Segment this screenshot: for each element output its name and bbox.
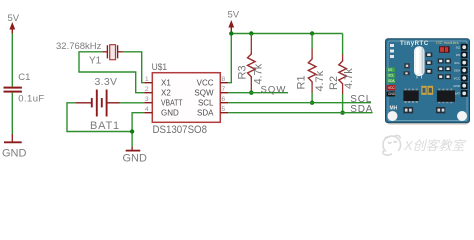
TinyRTC module photo <box>386 39 470 125</box>
PCB board <box>386 39 470 123</box>
svg-text:2: 2 <box>145 86 149 93</box>
left white dots <box>390 44 394 58</box>
crystal cylinder photo <box>414 46 425 78</box>
wire SQW net <box>228 92 288 94</box>
watermark logo <box>383 135 401 155</box>
wire crystal right to X1 pin1 <box>123 52 144 83</box>
PCB shadow <box>388 120 468 125</box>
svg-text:Y1: Y1 <box>89 56 102 67</box>
svg-text:GND: GND <box>161 108 179 117</box>
wire 5V rail top <box>231 33 342 35</box>
wire rail to VCC pin8 <box>228 34 231 83</box>
svg-text:VCC: VCC <box>454 76 461 80</box>
svg-text:0.1uF: 0.1uF <box>18 94 44 105</box>
wire SDA net <box>228 112 372 114</box>
svg-text:GND: GND <box>2 148 27 160</box>
pin 7 SQW <box>220 86 228 93</box>
wire battery right to VBATT pin3 <box>120 102 145 104</box>
wire 5V to C1 <box>11 34 13 87</box>
resistor R3 <box>248 34 256 93</box>
svg-text:32.768kHz: 32.768kHz <box>56 41 102 52</box>
ground symbol right <box>126 147 141 151</box>
battery BAT1 <box>75 90 120 117</box>
pin names left column <box>161 78 183 117</box>
IC2 SOIC <box>437 89 455 104</box>
svg-text:I2C modules: I2C modules <box>436 40 458 45</box>
svg-text:5V: 5V <box>8 13 20 24</box>
svg-text:4: 4 <box>145 106 149 113</box>
svg-text:SQW: SQW <box>261 84 287 95</box>
capacitor C1 <box>4 87 22 93</box>
svg-text:GND: GND <box>123 153 148 165</box>
svg-text:4.7k: 4.7k <box>343 68 355 89</box>
yellow caps <box>421 86 433 95</box>
svg-text:SCL: SCL <box>454 61 460 65</box>
svg-text:3: 3 <box>145 96 149 103</box>
junction R1 SCL <box>310 101 314 105</box>
wire battery left to bottom rail <box>67 103 132 132</box>
mounting hole left <box>388 111 398 121</box>
pin 4 GND <box>144 106 152 113</box>
pin 8 VCC <box>220 76 228 83</box>
svg-text:VCC: VCC <box>197 78 214 87</box>
svg-text:BAT1: BAT1 <box>90 120 120 132</box>
svg-text:SDA: SDA <box>454 69 460 73</box>
IC1 SOIC <box>403 89 418 103</box>
ground symbol left <box>4 134 22 142</box>
svg-text:7: 7 <box>222 86 226 93</box>
svg-text:6: 6 <box>222 96 226 103</box>
junction R2 SDA <box>340 111 344 115</box>
svg-text:X创客教室: X创客教室 <box>403 138 467 153</box>
resistor R1 <box>308 34 316 103</box>
pin 6 SCL <box>220 96 228 103</box>
svg-text:DS: DS <box>456 53 460 57</box>
svg-text:X1: X1 <box>161 78 171 87</box>
svg-text:BAT: BAT <box>454 92 460 96</box>
pin 5 SDA <box>220 106 228 113</box>
wire SCL net <box>228 102 371 104</box>
white smd column right of crystal <box>426 53 433 74</box>
junction R3 SQW <box>249 91 253 95</box>
svg-text:R2: R2 <box>328 76 340 90</box>
wire GND pin4 down to bottom rail <box>132 113 144 148</box>
pin names right column <box>194 78 214 117</box>
small parts left of crystal <box>404 63 410 75</box>
svg-text:SCL: SCL <box>388 74 394 78</box>
junction battery ground <box>130 129 134 133</box>
svg-text:X2: X2 <box>161 88 171 97</box>
svg-text:5: 5 <box>222 106 226 113</box>
svg-text:4.7k: 4.7k <box>314 70 326 91</box>
IC U$1 DS1307 body <box>152 73 220 123</box>
svg-text:SDA: SDA <box>388 79 395 83</box>
svg-text:SQ: SQ <box>456 46 461 50</box>
power flag 5V left <box>8 13 20 34</box>
svg-text:SCL: SCL <box>198 98 214 107</box>
svg-text:5V: 5V <box>228 10 240 21</box>
crystal Y1 <box>102 45 123 60</box>
resistor R2 <box>339 34 347 113</box>
svg-text:DS: DS <box>388 68 392 72</box>
svg-text:1: 1 <box>145 76 149 83</box>
pin 1 X1 <box>144 76 152 83</box>
power flag 5V right <box>228 10 240 34</box>
svg-text:R3: R3 <box>237 65 249 79</box>
svg-text:C1: C1 <box>18 72 30 83</box>
svg-text:SDA: SDA <box>197 108 214 117</box>
wire C1 to ground <box>11 93 13 135</box>
svg-text:GND: GND <box>388 92 396 96</box>
junction rail R3 <box>249 31 253 35</box>
wire crystal left to X2 pin2 <box>79 52 144 93</box>
junction rail R1 <box>310 31 314 35</box>
svg-text:SQW: SQW <box>194 88 214 97</box>
svg-text:TinyRTC: TinyRTC <box>400 41 429 47</box>
left colored pads <box>387 68 396 97</box>
svg-text:SDA: SDA <box>350 104 373 115</box>
svg-text:4.7k: 4.7k <box>252 63 264 84</box>
svg-text:R1: R1 <box>296 75 308 89</box>
svg-text:DS1307SO8: DS1307SO8 <box>153 124 208 136</box>
smd pairs center-right <box>438 59 451 80</box>
junction rail pin8 <box>229 31 233 35</box>
right header pins <box>453 44 467 97</box>
pin 3 VBATT <box>144 96 152 103</box>
svg-text:3.3V: 3.3V <box>95 76 118 88</box>
svg-text:8: 8 <box>222 76 226 83</box>
svg-text:GND: GND <box>453 84 461 88</box>
bottom small parts <box>403 107 445 113</box>
svg-text:VBATT: VBATT <box>161 98 183 107</box>
red smd component <box>439 46 450 53</box>
svg-text:U$1: U$1 <box>152 62 168 73</box>
svg-text:MH: MH <box>390 106 398 112</box>
svg-text:VCC: VCC <box>388 86 395 90</box>
mounting hole right <box>457 111 467 121</box>
pin 2 X2 <box>144 86 152 93</box>
